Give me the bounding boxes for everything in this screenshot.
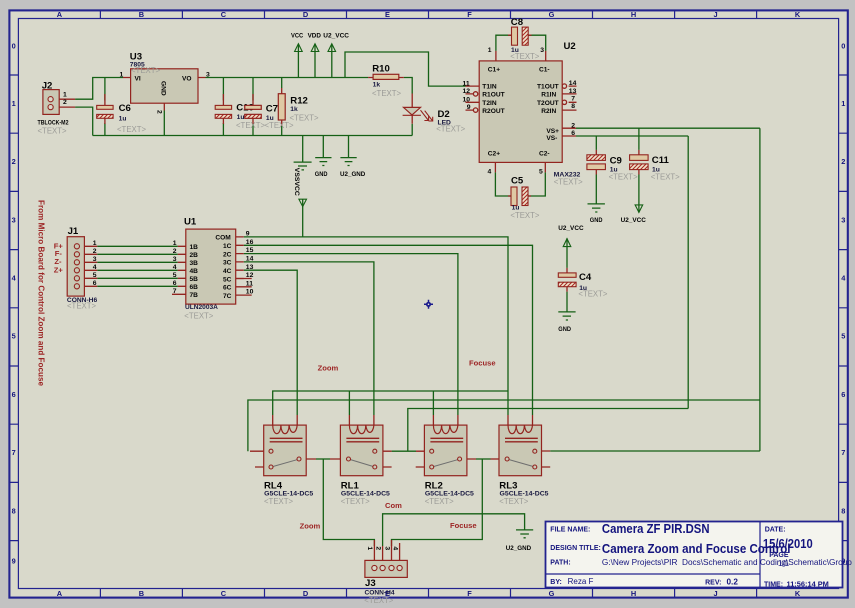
wire D2 cathode to rail	[411, 124, 413, 136]
regulator U3 labels	[120, 52, 211, 115]
svg-text:VCC: VCC	[293, 182, 300, 196]
svg-text:J3: J3	[365, 578, 376, 589]
svg-text:Z+: Z+	[54, 266, 64, 275]
svg-text:C1-: C1-	[539, 66, 550, 73]
svg-text:ULN2003A: ULN2003A	[185, 304, 218, 311]
svg-text:Focuse: Focuse	[469, 359, 496, 368]
wire GND ground stem	[322, 136, 324, 158]
svg-text:From Micro Board for Control Z: From Micro Board for Control Zoom and Fo…	[37, 200, 46, 386]
wire J1.1 to U1.1	[97, 245, 178, 247]
svg-text:<TEXT>: <TEXT>	[264, 497, 293, 506]
wire U1 pin16 to RL3 right coil	[244, 245, 533, 415]
connector J2 labels	[38, 80, 69, 135]
capacitor C9	[587, 155, 606, 170]
svg-text:<TEXT>: <TEXT>	[67, 302, 96, 311]
svg-text:2: 2	[841, 157, 845, 166]
wire VS- vertical	[687, 136, 689, 409]
svg-text:7: 7	[841, 448, 845, 457]
wire VCC down-arrow to COM rail	[302, 199, 304, 237]
svg-text:3: 3	[93, 256, 97, 263]
wire U1 pin14 to RL1 right coil	[244, 262, 374, 415]
svg-text:6: 6	[841, 390, 845, 399]
svg-text:R1IN: R1IN	[541, 92, 556, 99]
svg-text:12: 12	[463, 88, 471, 95]
pin stubs J3	[374, 540, 399, 565]
wire VDD power stem	[314, 44, 316, 78]
wire VS- branch to RL1 RL2	[408, 409, 688, 452]
relay RL2 labels	[425, 480, 475, 506]
svg-text:J1: J1	[68, 226, 79, 237]
svg-text:6: 6	[173, 280, 177, 287]
svg-text:GND: GND	[315, 171, 328, 178]
svg-text:6B: 6B	[190, 284, 199, 291]
svg-text:D2: D2	[438, 109, 450, 120]
svg-text:3: 3	[841, 215, 845, 224]
wire C10 stems	[222, 78, 224, 136]
svg-text:2B: 2B	[190, 252, 199, 259]
svg-text:Zoom: Zoom	[318, 363, 339, 372]
svg-text:1: 1	[366, 546, 373, 550]
svg-text:6: 6	[93, 280, 97, 287]
svg-text:9: 9	[12, 557, 16, 566]
pin stubs C9	[595, 150, 597, 175]
svg-text:U2_VCC: U2_VCC	[558, 225, 583, 232]
svg-text:DESIGN TITLE:: DESIGN TITLE:	[550, 545, 601, 552]
pin stubs RL3 contacts	[537, 451, 550, 467]
svg-text:1u: 1u	[119, 115, 127, 122]
svg-text:VI: VI	[135, 76, 141, 83]
connector J1	[67, 237, 84, 296]
svg-text:12: 12	[246, 272, 254, 279]
svg-text:14: 14	[246, 256, 254, 263]
capacitor C9 labels	[590, 155, 638, 224]
svg-text:<TEXT>: <TEXT>	[372, 89, 401, 98]
svg-text:11: 11	[246, 280, 253, 287]
svg-text:T2OUT: T2OUT	[537, 100, 559, 107]
capacitor C11	[630, 155, 649, 170]
wire VCC power stem	[297, 44, 299, 78]
pin stubs C10	[222, 94, 224, 124]
svg-text:6: 6	[571, 130, 575, 137]
svg-text:U1: U1	[184, 217, 197, 228]
svg-text:GND: GND	[558, 326, 571, 333]
wire J1.2 to U1.2	[97, 253, 178, 255]
svg-text:C11: C11	[652, 155, 670, 166]
svg-text:VSS: VSS	[293, 168, 300, 182]
svg-text:11: 11	[463, 80, 470, 87]
svg-text:R10: R10	[372, 64, 390, 75]
pin stub link RL4 RL1 commons	[330, 458, 347, 460]
svg-text:B: B	[139, 589, 144, 598]
ground GND	[315, 158, 331, 166]
capacitor C7	[245, 105, 261, 118]
ic U2 labels	[463, 17, 584, 220]
svg-text:3: 3	[206, 71, 210, 78]
svg-text:3B: 3B	[190, 260, 199, 267]
svg-text:5B: 5B	[190, 276, 199, 283]
svg-text:B: B	[139, 10, 144, 19]
svg-text:BY:: BY:	[550, 579, 562, 586]
svg-text:COM: COM	[215, 235, 231, 242]
svg-text:13: 13	[569, 88, 577, 95]
wire J1.3 to U1.3	[97, 261, 178, 263]
connector J3 labels	[364, 546, 398, 604]
svg-text:1B: 1B	[190, 244, 199, 251]
svg-text:T1OUT: T1OUT	[537, 84, 559, 91]
svg-text:2: 2	[571, 122, 575, 129]
svg-text:<TEXT>: <TEXT>	[131, 66, 160, 75]
relay RL1 labels	[341, 480, 391, 506]
svg-text:TIME:: TIME:	[764, 581, 783, 588]
svg-text:11:56:14 PM: 11:56:14 PM	[787, 579, 829, 588]
pin stubs U2 top bottom	[495, 51, 545, 172]
svg-text:1: 1	[12, 99, 16, 108]
pin stubs C8	[508, 34, 532, 36]
svg-text:2: 2	[374, 546, 381, 550]
svg-text:15: 15	[246, 247, 254, 254]
svg-text:K: K	[795, 10, 801, 19]
svg-text:<TEXT>: <TEXT>	[436, 125, 465, 134]
wire VS+ vertical	[759, 128, 761, 451]
resistor R12 labels	[290, 95, 319, 122]
pin stubs C5	[508, 195, 531, 197]
wire Zoom net to J3.1	[323, 459, 374, 546]
svg-text:<TEXT>: <TEXT>	[341, 497, 370, 506]
svg-text:G:\New Projects\PIR Docs\Sche: G:\New Projects\PIR Docs\Schematic and C…	[602, 558, 852, 567]
pin bubbles U2 left	[473, 92, 477, 96]
svg-text:Zoom: Zoom	[300, 521, 321, 530]
wire J1.5 to U1.5	[97, 277, 178, 279]
svg-text:1k: 1k	[290, 106, 298, 113]
svg-text:J: J	[714, 589, 718, 598]
svg-text:14: 14	[569, 80, 577, 87]
wire J2.2 to ground rail	[75, 107, 93, 135]
svg-text:E: E	[385, 10, 390, 19]
power arrow VDD up	[311, 44, 319, 52]
svg-text:0.2: 0.2	[727, 578, 739, 587]
wire U1 pin15 to RL2 right coil	[244, 254, 458, 415]
svg-text:<TEXT>: <TEXT>	[364, 596, 393, 605]
svg-text:VCC: VCC	[291, 33, 303, 40]
wire C11 to U2_VCC arrow	[638, 175, 640, 213]
svg-text:8: 8	[571, 103, 575, 110]
svg-text:D: D	[303, 10, 309, 19]
capacitor C7 labels	[265, 103, 294, 130]
svg-text:J: J	[714, 10, 718, 19]
svg-text:5C: 5C	[223, 276, 232, 283]
svg-text:C2+: C2+	[488, 150, 500, 157]
pin stubs RL4 contacts	[250, 451, 316, 467]
relay RL2	[424, 425, 467, 476]
wire VSS ground stem	[302, 136, 304, 162]
svg-text:VO: VO	[182, 76, 192, 83]
ground U2_GND	[340, 158, 356, 166]
wire ground rail	[93, 135, 413, 137]
svg-text:15/6/2010: 15/6/2010	[763, 537, 813, 551]
svg-text:Focuse: Focuse	[450, 521, 477, 530]
svg-text:7B: 7B	[190, 292, 199, 299]
svg-text:3: 3	[383, 546, 390, 550]
svg-text:U2_VCC: U2_VCC	[621, 217, 646, 224]
svg-text:4B: 4B	[190, 268, 199, 275]
connector J2	[43, 90, 59, 115]
power arrow U2_VCC up	[328, 44, 336, 52]
wire RL1 RL2 contact link	[392, 450, 416, 452]
wire rail to U2 pin11	[345, 52, 466, 86]
svg-text:U2_GND: U2_GND	[340, 171, 365, 178]
capacitor C7 plates overlay	[245, 105, 261, 118]
pin stubs U3	[123, 78, 206, 111]
svg-text:C5: C5	[511, 176, 524, 187]
pin stubs U2 right	[562, 86, 576, 136]
svg-text:2: 2	[12, 157, 16, 166]
wire Com net J3.2 to U2_GND	[383, 514, 525, 546]
capacitor C10 labels	[236, 102, 265, 130]
wire R12 stems	[281, 78, 283, 136]
svg-text:2: 2	[63, 99, 67, 106]
pin stubs relay coils	[273, 415, 533, 425]
svg-text:1: 1	[173, 240, 177, 247]
svg-text:5: 5	[841, 332, 845, 341]
wire C5 to U2 pin5	[528, 172, 545, 196]
svg-text:3: 3	[12, 215, 16, 224]
wire RL4 RL1 common link	[316, 458, 330, 460]
resistor R10 labels	[372, 64, 401, 98]
svg-text:<TEXT>: <TEXT>	[499, 497, 528, 506]
wire C7 stems	[252, 78, 254, 136]
ground labels VSS GND U2_GND	[293, 168, 365, 196]
power arrow VCC down to COM rail	[299, 199, 307, 206]
svg-text:1: 1	[488, 47, 492, 54]
svg-text:GND: GND	[590, 217, 603, 224]
wire J2.1 to VI rail	[75, 78, 123, 100]
svg-text:VS+: VS+	[546, 128, 559, 135]
pin stubs J1	[80, 246, 98, 286]
pin stubs R12	[281, 88, 283, 126]
capacitor C5	[511, 187, 528, 206]
svg-text:2: 2	[156, 110, 163, 114]
ground VSS	[294, 162, 312, 170]
wire coil common line A	[273, 391, 508, 415]
capacitor C4 labels	[558, 225, 608, 333]
svg-text:VS-: VS-	[546, 135, 557, 142]
svg-text:5: 5	[539, 168, 543, 175]
svg-text:5: 5	[173, 272, 177, 279]
svg-text:<TEXT>: <TEXT>	[510, 211, 539, 220]
pin stubs C4	[566, 268, 568, 292]
svg-text:VDD: VDD	[308, 33, 321, 40]
svg-text:<TEXT>: <TEXT>	[425, 497, 454, 506]
svg-text:PATH:: PATH:	[550, 560, 570, 567]
capacitor C4	[558, 273, 576, 287]
connector J3	[365, 560, 407, 577]
svg-text:Camera ZF PIR.DSN: Camera ZF PIR.DSN	[602, 522, 710, 536]
svg-text:5: 5	[12, 332, 16, 341]
svg-text:G: G	[549, 10, 555, 19]
svg-text:C4: C4	[579, 272, 592, 283]
resistor R12	[278, 94, 285, 120]
wire Focuse net to J3.3	[392, 459, 483, 546]
capacitor C6 labels	[117, 103, 146, 134]
svg-text:2: 2	[93, 248, 97, 255]
wire VS+ branch to RL4	[248, 400, 760, 451]
relay RL3 labels	[499, 480, 549, 506]
wire VO rail	[206, 77, 369, 79]
svg-text:0: 0	[841, 42, 845, 51]
svg-text:J2: J2	[42, 80, 53, 91]
svg-text:<TEXT>: <TEXT>	[578, 290, 607, 299]
svg-text:3: 3	[540, 47, 544, 54]
pin stubs D2	[411, 94, 413, 124]
capacitor C6	[97, 105, 113, 118]
power arrow U2_VCC up at C4	[563, 239, 571, 247]
svg-text:5: 5	[93, 272, 97, 279]
pin bubbles U2 right	[562, 84, 566, 88]
wire C8 to U2 pin3	[528, 35, 546, 51]
svg-text:9: 9	[246, 231, 250, 238]
wire J1.6 to U1.6	[97, 285, 178, 287]
resistor R10	[373, 74, 399, 79]
pin stubs RL1 contacts	[377, 451, 392, 467]
svg-text:G: G	[549, 589, 555, 598]
node origin marker	[424, 300, 433, 309]
svg-text:16: 16	[246, 239, 254, 246]
svg-text:1u: 1u	[237, 114, 245, 121]
svg-text:1: 1	[93, 240, 97, 247]
pin stubs C6	[104, 94, 106, 124]
svg-text:A: A	[57, 589, 63, 598]
svg-text:C2-: C2-	[539, 150, 550, 157]
svg-text:7: 7	[571, 96, 575, 103]
svg-text:<TEXT>: <TEXT>	[265, 121, 294, 130]
svg-text:3C: 3C	[223, 260, 232, 267]
wire U2_VCC power stem	[331, 44, 333, 78]
svg-text:1: 1	[120, 71, 124, 78]
capacitor C10	[215, 105, 231, 118]
svg-text:2: 2	[173, 248, 177, 255]
svg-text:13: 13	[246, 264, 254, 271]
svg-text:C: C	[221, 10, 227, 19]
svg-text:1k: 1k	[373, 82, 381, 89]
wire RL2 RL3 common link	[476, 458, 491, 460]
pin stubs RL2 contacts	[416, 451, 476, 467]
wire J1.4 to U1.4	[97, 269, 178, 271]
ground GND under C9	[588, 204, 605, 212]
svg-text:F: F	[467, 10, 472, 19]
svg-text:<TEXT>: <TEXT>	[609, 173, 638, 182]
svg-text:4: 4	[93, 264, 97, 271]
svg-text:A: A	[57, 10, 63, 19]
svg-text:Reza F: Reza F	[568, 577, 594, 586]
wire R10 to D2	[404, 78, 412, 94]
svg-text:<TEXT>: <TEXT>	[38, 126, 67, 135]
pin stubs J2	[53, 99, 75, 107]
regulator U3 7805	[131, 69, 198, 103]
svg-text:1: 1	[63, 91, 67, 98]
connector J1 labels	[54, 226, 98, 310]
pin stubs R10	[368, 77, 404, 79]
svg-text:K: K	[795, 589, 801, 598]
svg-text:4: 4	[391, 546, 398, 550]
wire C4 stems	[566, 238, 568, 311]
svg-text:F: F	[467, 589, 472, 598]
svg-text:C1+: C1+	[488, 66, 500, 73]
svg-text:C6: C6	[119, 103, 131, 114]
svg-text:7: 7	[12, 448, 16, 457]
wire U1 pin13 to RL4 right coil	[244, 270, 298, 415]
ground GND under C4	[558, 312, 575, 320]
svg-text:FILE NAME:: FILE NAME:	[550, 526, 590, 533]
svg-text:6: 6	[12, 390, 16, 399]
svg-text:R2IN: R2IN	[541, 108, 556, 115]
svg-text:6C: 6C	[223, 285, 232, 292]
svg-text:D: D	[303, 589, 309, 598]
pin stubs C11	[638, 150, 640, 175]
svg-text:R2OUT: R2OUT	[482, 108, 504, 115]
wire U2 pin4 to C5	[495, 172, 511, 196]
svg-text:C: C	[221, 589, 227, 598]
svg-text:REV:: REV:	[705, 580, 721, 587]
svg-text:4: 4	[488, 168, 492, 175]
wire C9 top stem	[595, 136, 597, 150]
pin stubs U2 left	[466, 86, 480, 110]
svg-text:H: H	[631, 10, 636, 19]
wire VS+ net	[576, 127, 760, 129]
wire U2 pin1 to C8	[496, 35, 512, 51]
relay RL1	[340, 425, 383, 476]
svg-text:2C: 2C	[223, 251, 232, 258]
wire VS- net	[576, 135, 688, 137]
svg-text:1/1: 1/1	[778, 559, 790, 568]
relay RL4 labels	[264, 480, 314, 506]
node power labels VCC VDD U2_VCC	[291, 33, 349, 40]
node title block	[546, 522, 853, 589]
wire U3 GND pin to rail	[163, 111, 165, 136]
relay RL3	[499, 425, 542, 476]
pin stubs C7	[252, 94, 254, 124]
diode D2 LED	[403, 107, 433, 121]
wire VS+ branch to RL3	[550, 450, 760, 452]
pin stub link RL2 RL3 commons	[491, 458, 506, 460]
wire C11 top stem	[638, 128, 640, 150]
power arrow U2_VCC down under C11	[635, 205, 643, 213]
svg-text:3: 3	[173, 256, 177, 263]
svg-text:1C: 1C	[223, 243, 232, 250]
pin stubs U1 pin12	[236, 278, 252, 280]
power arrow VCC up	[295, 44, 303, 52]
svg-text:T1IN: T1IN	[482, 84, 497, 91]
svg-text:<TEXT>: <TEXT>	[510, 52, 539, 61]
svg-text:U2: U2	[564, 41, 576, 52]
svg-text:U2_VCC: U2_VCC	[323, 33, 349, 40]
svg-text:<TEXT>: <TEXT>	[236, 121, 265, 130]
svg-text:GND: GND	[160, 81, 167, 96]
svg-text:10: 10	[463, 96, 471, 103]
pin stubs U1 left	[172, 246, 186, 294]
svg-text:DATE:: DATE:	[765, 526, 786, 533]
svg-text:R12: R12	[290, 95, 308, 106]
pin stubs U1 right	[236, 237, 252, 295]
ic U2 MAX232	[479, 61, 562, 162]
svg-text:C8: C8	[511, 17, 524, 28]
svg-text:C7: C7	[266, 103, 278, 114]
svg-text:<TEXT>: <TEXT>	[117, 125, 146, 134]
svg-text:1: 1	[841, 99, 845, 108]
svg-text:<TEXT>: <TEXT>	[184, 311, 213, 320]
ground U2_GND near title block	[516, 530, 533, 538]
svg-text:10: 10	[246, 289, 254, 296]
svg-text:9: 9	[467, 104, 471, 111]
